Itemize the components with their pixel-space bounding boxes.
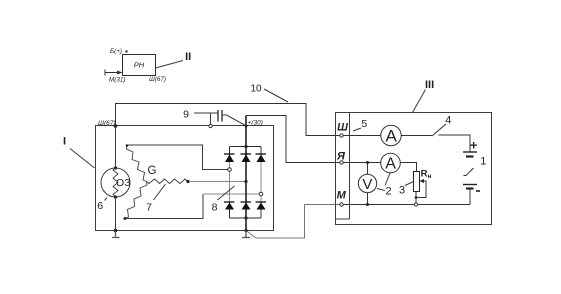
wire Я row <box>344 162 381 164</box>
junction housing top crossing <box>245 125 248 128</box>
pointer/lead 9 <box>194 112 218 114</box>
capacitor plates <box>218 110 222 122</box>
terminal dot Б <box>125 50 127 52</box>
wire Ш(67) to field winding <box>115 126 117 168</box>
minus label <box>476 190 480 192</box>
field winding ОЗ circle (6) <box>101 168 130 197</box>
pointer line 2 from voltmeter <box>377 189 385 191</box>
capacitor lead to housing <box>210 113 212 125</box>
ground left <box>112 231 120 238</box>
svg-text:М: М <box>337 189 347 201</box>
pointer line 8 <box>218 186 235 200</box>
node phase middle <box>244 180 247 183</box>
svg-text:8: 8 <box>212 201 218 213</box>
pointer line 3 <box>405 182 414 186</box>
ground middle <box>242 231 250 238</box>
cell bottom plates <box>463 184 477 186</box>
pointer line 6 <box>105 198 108 201</box>
phase middle zigzag <box>147 179 188 184</box>
terminal strip divider <box>335 113 350 220</box>
diode VD6 <box>256 202 267 210</box>
svg-text:+(30): +(30) <box>248 120 263 127</box>
battery break symbol <box>464 168 474 176</box>
rheostat Rн (3) <box>414 172 420 192</box>
svg-text:7: 7 <box>146 202 152 214</box>
node phase right <box>259 192 263 196</box>
voltmeter V leads <box>367 163 369 205</box>
node rheostat on М row <box>414 203 417 206</box>
svg-text:G: G <box>148 165 157 177</box>
svg-text:4: 4 <box>445 115 451 127</box>
diode VD3 <box>256 154 267 162</box>
svg-text:6: 6 <box>97 200 103 212</box>
capacitor lead to +30 <box>222 115 246 126</box>
pointer line III <box>413 90 426 113</box>
left column <box>229 147 231 163</box>
pointer line II <box>156 61 184 69</box>
pointer line 2 <box>385 173 390 186</box>
svg-text:9: 9 <box>183 108 189 120</box>
wire Ш row to ammeter <box>344 135 382 137</box>
phase bottom zigzag <box>125 182 147 219</box>
pointer line 5 <box>353 128 361 131</box>
pointer line 7 <box>154 184 166 200</box>
svg-text:ОЗ: ОЗ <box>116 177 131 189</box>
svg-text:н: н <box>428 173 432 180</box>
junction wiper on lead <box>415 196 418 199</box>
wire М return (generator minus to М terminal) <box>246 205 340 239</box>
svg-text:А: А <box>386 127 398 146</box>
wire bottom phase to rectifier <box>125 194 203 219</box>
stator winding G (7): phase top zigzag <box>127 146 147 182</box>
wire М row <box>344 204 471 206</box>
М(31) arrow into regulator <box>105 70 119 76</box>
junction top bus <box>244 145 247 148</box>
junction housing bottom crossing <box>244 229 247 232</box>
junction voltmeter tap <box>366 161 369 164</box>
wire +(30) to Я terminal <box>246 116 340 163</box>
wire battery minus to М row <box>469 189 471 205</box>
terminal М node <box>340 203 343 206</box>
generator housing box I <box>96 126 274 231</box>
junction voltmeter on М row <box>366 203 369 206</box>
wire A2 to rheostat <box>401 163 417 172</box>
node Ш(67) on housing <box>114 124 118 128</box>
middle column / plus-minus bus <box>245 116 247 231</box>
cell top plates <box>463 151 477 153</box>
svg-text:Ш(67): Ш(67) <box>98 120 116 127</box>
svg-text:+: + <box>470 139 477 153</box>
rheostat bottom lead <box>415 192 417 205</box>
svg-text:II: II <box>185 51 191 63</box>
junction housing bottom <box>114 229 118 233</box>
right column <box>260 147 262 163</box>
node middle phase end <box>186 180 189 183</box>
voltmeter V <box>358 174 376 193</box>
wire field to housing bottom <box>115 197 117 231</box>
switch 4 blade <box>432 124 446 136</box>
svg-text:Ш(67): Ш(67) <box>149 76 166 83</box>
svg-text:РН: РН <box>134 61 145 70</box>
ammeter A2 (load circuit, 2) <box>381 153 401 173</box>
svg-text:Ш: Ш <box>337 121 348 133</box>
node field top <box>114 166 117 169</box>
rheostat wiper arrow <box>420 179 425 183</box>
top bus <box>230 146 262 148</box>
field winding zigzag <box>113 168 118 197</box>
wire middle phase to rectifier <box>189 181 246 183</box>
svg-text:III: III <box>425 79 434 91</box>
diode VD5 <box>241 202 252 210</box>
svg-text:10: 10 <box>250 83 262 94</box>
diode VD2 <box>241 154 252 162</box>
node bottom phase end <box>124 217 127 220</box>
wire ammeter to switch <box>402 135 433 137</box>
terminal Ш node <box>340 134 343 137</box>
pointer line 10 <box>264 89 288 102</box>
test stand box III <box>336 113 492 225</box>
svg-text:I: I <box>63 135 66 147</box>
pointer line I <box>70 149 95 169</box>
junction bottom bus <box>244 216 247 219</box>
terminal Я node <box>340 161 343 164</box>
svg-text:3: 3 <box>399 185 405 197</box>
wire 10 (Ш(67) generator to Ш terminal of stand) <box>116 104 341 136</box>
svg-text:Б(+): Б(+) <box>110 48 122 55</box>
wire top phase to rectifier <box>127 145 228 170</box>
node phase left <box>228 168 232 172</box>
diode VD4 <box>224 202 235 210</box>
svg-text:М(31): М(31) <box>109 77 125 84</box>
node top phase end <box>126 144 129 147</box>
svg-text:V: V <box>362 176 372 193</box>
node field bottom <box>114 195 117 198</box>
svg-text:2: 2 <box>385 186 391 198</box>
svg-text:5: 5 <box>361 118 367 130</box>
svg-text:А: А <box>385 156 396 173</box>
svg-text:1: 1 <box>480 155 486 167</box>
ammeter A1 (field circuit) <box>381 125 401 145</box>
bottom bus <box>230 217 262 219</box>
node capacitor on housing <box>209 124 212 127</box>
voltage regulator U: box РН (II) <box>123 55 156 76</box>
diode VD1 <box>224 154 235 162</box>
wire switch to battery <box>439 135 471 152</box>
